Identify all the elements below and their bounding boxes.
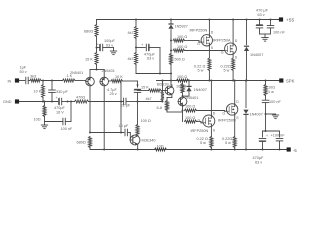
svg-text:330 pF: 330 pF: [56, 90, 69, 94]
junction D4 rail: [245, 149, 247, 151]
resistor R6 680R: [95, 25, 98, 37]
resistor R18 100R gate M2: [173, 49, 185, 52]
svg-text:G: G: [198, 118, 201, 122]
svg-text:100 Ω: 100 Ω: [185, 116, 195, 120]
capacitor C12 100nF zobel: [262, 100, 269, 102]
capacitor C14 100nF -rail: [276, 139, 283, 141]
svg-text:22 pF: 22 pF: [121, 103, 131, 107]
svg-text:IN: IN: [8, 80, 12, 84]
wire D4 bottom: [245, 115, 247, 150]
junction 4u7 node: [137, 101, 139, 103]
svg-text:50 v: 50 v: [20, 70, 27, 74]
resistor R28 10R zobel: [264, 85, 267, 96]
junction 4k7 midnode: [135, 47, 137, 49]
resistor R9 680R feedback: [89, 137, 92, 148]
resistor R3 10K input shunt: [42, 85, 45, 98]
wire botcap2 bottom: [279, 141, 281, 150]
svg-text:100 nF: 100 nF: [273, 31, 286, 35]
wire gnd row mid: [62, 101, 75, 103]
svg-text:S: S: [235, 55, 238, 59]
junction tail: [96, 69, 98, 71]
wire R1 to node A: [41, 80, 63, 82]
svg-text:G: G: [221, 51, 224, 55]
junction NFB node: [89, 132, 91, 134]
junction 470uF return: [159, 73, 161, 75]
wire to M1 gate: [185, 41, 202, 43]
resistor R25 100R gate M3: [185, 120, 197, 123]
transistor Q4 BD139: [165, 86, 174, 95]
wire M4 source: [234, 115, 236, 136]
svg-text:+: +: [141, 43, 143, 47]
junction rail 4k7a: [135, 19, 137, 21]
wire 680R to node: [96, 37, 98, 53]
junction tail filter node: [96, 47, 98, 49]
svg-text:-55: -55: [293, 148, 297, 153]
wire 500R to output rail: [170, 65, 172, 81]
junction Q2 col rail: [103, 149, 105, 151]
wire gnd lift bottom: [44, 117, 46, 126]
svg-text:10 K: 10 K: [115, 75, 123, 79]
junction M2 drain rail: [232, 19, 234, 21]
junction botcap2 rail: [279, 149, 281, 151]
wire feedback row: [89, 101, 124, 103]
svg-text:S: S: [236, 116, 239, 120]
svg-text:S: S: [211, 46, 214, 50]
wire D2 bottom: [246, 51, 248, 81]
wire 22pF to 4u7 node: [126, 101, 138, 103]
wire Q5 emitter down: [182, 105, 184, 121]
svg-text:1 w: 1 w: [268, 90, 274, 94]
svg-text:D: D: [235, 39, 238, 43]
svg-text:+: +: [97, 43, 99, 47]
junction M3 rail: [210, 149, 212, 151]
wire 4k7b bottom: [135, 65, 137, 74]
wire topcap2 bottom: [270, 28, 272, 34]
wire 15K to BD139 base: [138, 90, 166, 92]
junction M3 out: [210, 80, 212, 82]
resistor R7 15K tail: [95, 53, 98, 65]
svg-text:100 Ω: 100 Ω: [176, 85, 186, 89]
junction node B: [51, 80, 53, 82]
svg-text:3k3: 3k3: [30, 75, 36, 79]
wire R3 to gnd row: [42, 81, 44, 102]
wire botcap1 stub: [262, 131, 264, 137]
wire 470uF return: [136, 48, 160, 74]
wire Q1 collector: [89, 86, 91, 133]
wire return to gate line: [160, 73, 171, 75]
wire rail to R23: [182, 81, 184, 84]
junction gate row2: [170, 50, 172, 52]
junction zobel: [265, 80, 267, 82]
svg-text:1N4007: 1N4007: [250, 113, 263, 117]
resistor R23 100R driver: [181, 84, 184, 94]
wire Q2 base: [109, 80, 112, 82]
wire fb vertical top: [121, 81, 138, 133]
svg-text:100 Ω: 100 Ω: [185, 105, 195, 109]
svg-text:100 Ω: 100 Ω: [177, 45, 187, 49]
wire 100nF branch: [65, 102, 71, 122]
node +55 terminal: [279, 17, 283, 21]
resistor R1 3k3: [30, 79, 41, 82]
junction botcap1 rail: [262, 149, 264, 151]
node GND terminal: [15, 99, 19, 103]
wire M3 drain up: [210, 81, 212, 116]
capacitor C7 4.7uF marker: [136, 85, 138, 88]
wire M2 drain: [232, 20, 234, 43]
junction rail R23: [182, 80, 184, 82]
resistor R15 4k7 upper: [135, 27, 138, 39]
wire tail: [90, 65, 104, 78]
wire Q3 emitter: [137, 144, 139, 149]
wire topcaps join: [260, 34, 271, 38]
svg-text:680Ω: 680Ω: [77, 141, 86, 145]
capacitor C4 22pF: [124, 98, 126, 105]
wire VAS collector up: [137, 102, 139, 125]
svg-text:100 Ω: 100 Ω: [177, 35, 187, 39]
wire +55 top rail: [97, 19, 281, 21]
svg-text:15 K: 15 K: [85, 58, 93, 62]
transistor M4 IRFP250N: [226, 104, 237, 115]
junction botcaps: [265, 130, 267, 132]
svg-text:10Ω: 10Ω: [157, 145, 164, 149]
junction 500R rail: [170, 80, 172, 82]
wire output to 4k7: [162, 81, 164, 92]
junction Q5 collector node: [182, 95, 184, 97]
resistor R11 10R rail: [155, 148, 167, 151]
svg-text:S: S: [213, 128, 216, 132]
svg-text:2N5401: 2N5401: [185, 96, 198, 100]
ground output: [272, 115, 278, 119]
diode D3 1N4007 clamp: [186, 86, 191, 91]
capacitor C11 100nF +rail: [267, 26, 274, 28]
resistor R20 0.22R M1: [208, 58, 211, 71]
junction feedback-gnd node: [67, 101, 69, 103]
junction rail zener: [170, 19, 172, 21]
wire M3 to rail: [210, 148, 212, 150]
junction M4 rail: [234, 149, 236, 151]
capacitor C2 330pF: [49, 90, 56, 92]
svg-text:5 w: 5 w: [224, 68, 230, 72]
svg-text:G: G: [197, 42, 200, 46]
wire D3 to Q5 collector: [183, 91, 190, 96]
resistor R13 15K bias feed: [149, 89, 162, 92]
junction gnd-10K: [42, 101, 44, 103]
svg-text:MJE340: MJE340: [142, 139, 156, 143]
svg-text:15 K: 15 K: [141, 86, 149, 90]
svg-text:16 V: 16 V: [56, 110, 64, 114]
wire C1 to R1: [28, 80, 30, 82]
wire R2 to Q1 base: [75, 80, 86, 82]
wire Q2 collector: [103, 86, 105, 150]
svg-text:D: D: [211, 31, 214, 35]
svg-text:SPK: SPK: [286, 79, 295, 84]
resistor R27 0.22R M4: [233, 137, 236, 148]
svg-text:IRFP250N: IRFP250N: [218, 119, 236, 123]
svg-text:4k7: 4k7: [128, 31, 134, 35]
wire M1 to output: [208, 71, 210, 81]
resistor R4 470R feedback: [75, 100, 89, 103]
transistor M3 IRFP250N: [203, 115, 215, 127]
wire M2 to output: [232, 71, 234, 81]
wire 4u7 to fb node: [137, 93, 139, 102]
svg-text:470µF: 470µF: [253, 156, 265, 160]
capacitor C13 470uF -rail: [259, 139, 266, 142]
wire 4u7 vertical: [137, 81, 139, 87]
svg-text:GND: GND: [3, 100, 12, 104]
wire D2 top: [246, 20, 248, 45]
wire M1 source: [208, 46, 210, 58]
svg-text:470Ω: 470Ω: [76, 96, 85, 100]
svg-text:100 Ω: 100 Ω: [177, 75, 187, 79]
svg-text:4k7: 4k7: [146, 97, 152, 101]
junction lower gate row1: [182, 110, 184, 112]
wire M3 source: [210, 127, 212, 137]
wire output rail to SPK: [157, 80, 280, 82]
diode D1 zener 1N5927: [168, 23, 173, 28]
svg-text:1N5927: 1N5927: [175, 25, 188, 29]
junction output-4k7: [162, 80, 164, 82]
wire D3 stub: [188, 81, 190, 86]
wire 100nF to ground lift: [45, 121, 63, 123]
svg-text:+55: +55: [286, 18, 294, 24]
svg-text:D: D: [213, 112, 216, 116]
diode D2 1N4007 upper: [244, 46, 249, 51]
svg-text:+: +: [266, 134, 268, 138]
resistor R19 500R: [170, 54, 173, 65]
transistor M2 IRFP250N: [225, 43, 237, 55]
svg-text:IRFP250A: IRFP250A: [213, 39, 231, 43]
resistor R26 0.22R M3: [210, 137, 213, 148]
svg-text:D: D: [236, 100, 239, 104]
svg-text:10 µF: 10 µF: [119, 124, 129, 128]
wire gnd lift top: [44, 102, 46, 106]
wire Q4 collector: [170, 81, 173, 88]
wire 100uF to ground: [103, 48, 114, 52]
capacitor C5 100nF: [63, 118, 65, 125]
svg-text:5 w: 5 w: [225, 141, 231, 145]
svg-text:BD139: BD139: [157, 83, 169, 87]
junction gate row1: [170, 40, 172, 42]
capacitor C9 470uF bias: [146, 44, 149, 51]
wire M1 drain: [208, 20, 210, 35]
junction fb row with Q2 branch: [120, 101, 122, 103]
resistor R14 68R: [166, 101, 169, 111]
wire to M3 gate: [197, 122, 203, 123]
wire Q4 emitter: [167, 95, 172, 101]
svg-text:25 v: 25 v: [110, 92, 117, 96]
wire D4 top: [245, 81, 247, 108]
wire 470uF+ stub: [259, 20, 261, 25]
svg-text:1N4007: 1N4007: [194, 88, 207, 92]
svg-text:10Ω: 10Ω: [34, 118, 41, 122]
svg-text:+100 nF: +100 nF: [271, 134, 286, 138]
capacitor C8 10uF: [125, 129, 127, 136]
transistor M1 IRFP250N: [201, 35, 212, 46]
junction topcap2: [270, 19, 272, 21]
resistor R2 1K series: [63, 79, 76, 82]
resistor R5 10R ground lift: [43, 106, 46, 117]
wire M4 to rail: [234, 148, 236, 150]
junction Q3 emitter rail: [137, 149, 139, 151]
svg-text:680Ω: 680Ω: [84, 30, 93, 34]
junction M4 out: [234, 80, 236, 82]
resistor R22 100R output: [177, 79, 189, 82]
svg-text:500 Ω: 500 Ω: [175, 58, 185, 62]
transistor Q3 MJE340: [130, 135, 140, 145]
capacitor C3 470uF feedback: [58, 98, 62, 105]
svg-text:63 v: 63 v: [258, 13, 265, 17]
ground 100uF: [110, 51, 116, 55]
wire input: [19, 80, 25, 82]
svg-text:IRFP250N: IRFP250N: [191, 129, 209, 133]
junction bias return: [170, 73, 172, 75]
svg-text:4k7: 4k7: [128, 57, 134, 61]
junction D4 out: [245, 80, 247, 82]
svg-text:6-8: 6-8: [157, 106, 163, 110]
resistor R8 10K feedback: [111, 80, 123, 83]
transistor Q1 2N5401: [86, 77, 95, 86]
svg-text:63 v: 63 v: [147, 57, 154, 61]
junction gnd-330pF: [51, 101, 53, 103]
junction zobel gnd branch: [265, 113, 267, 115]
svg-text:+: +: [56, 96, 59, 100]
wire to M4 gate: [197, 110, 227, 113]
wire NFB row: [90, 132, 124, 134]
wire 680R to rail: [89, 148, 91, 150]
capacitor C10 470uF +rail: [256, 24, 263, 28]
svg-text:63 v: 63 v: [255, 161, 262, 165]
wire 4k7 to fb row: [138, 101, 163, 102]
resistor R16 4k7 lower: [135, 53, 138, 65]
svg-text:2N5401: 2N5401: [70, 71, 83, 75]
svg-text:100 nF: 100 nF: [269, 100, 282, 104]
wire zener stub: [170, 20, 172, 24]
wire 68R to lower gate row: [167, 111, 182, 113]
diode D4 1N4007 lower: [243, 110, 248, 115]
wire zobel down: [265, 103, 267, 131]
junction D2 rail: [246, 19, 248, 21]
ground +rail caps: [262, 38, 268, 42]
junction D2 out: [246, 80, 248, 82]
junction M1 out: [208, 80, 210, 82]
capacitor C6 100uF decoupling: [99, 44, 103, 51]
junction NFB-dropper: [120, 132, 122, 134]
node -55 terminal: [287, 147, 291, 151]
resistor R21 0.22R M2: [232, 58, 235, 71]
wire rail to 4k7a: [135, 20, 137, 27]
wire 330pF top: [51, 81, 53, 90]
wire botcaps row: [263, 130, 280, 132]
svg-text:10 K: 10 K: [34, 90, 42, 94]
svg-text:100 nF: 100 nF: [61, 127, 74, 131]
junction M1 drain rail: [208, 19, 210, 21]
wire top rail to 680R: [96, 20, 98, 25]
wire zobel gnd branch: [266, 114, 276, 115]
wire midnode to 470uF: [136, 47, 145, 49]
wire 100nF+ stub: [270, 20, 272, 26]
wire 4k7a to node: [135, 39, 137, 53]
junction node A: [42, 80, 44, 82]
wire Q3 collector: [137, 135, 139, 137]
svg-text:IRFP250N: IRFP250N: [190, 28, 208, 32]
wire to 100uF: [97, 47, 100, 49]
svg-text:2N5401: 2N5401: [102, 69, 115, 73]
svg-text:5 w: 5 w: [198, 68, 204, 72]
node SPK terminal: [279, 78, 283, 82]
wire -55 bottom rail: [91, 149, 288, 151]
transistor Q2 2N5401: [100, 77, 109, 86]
wire to M2 gate: [185, 50, 225, 52]
junction 100nF branch top: [70, 101, 72, 103]
capacitor C1 1uF input coupling: [26, 77, 28, 84]
wire M4 drain up: [234, 81, 236, 104]
wire 10uF to MJE base: [127, 133, 130, 141]
wire gate line: [170, 30, 172, 54]
wire 330pF bottom: [51, 93, 53, 102]
resistor R24 100R gate M4: [185, 109, 197, 112]
wire gnd row left: [19, 101, 57, 103]
wire zobel mid: [265, 96, 267, 101]
junction M2 out: [232, 80, 234, 82]
junction 4k7 fb node: [162, 101, 164, 103]
wire R23 to Q5: [182, 93, 184, 97]
svg-text:G: G: [222, 111, 225, 115]
node IN terminal: [15, 78, 19, 82]
wire zobel top: [265, 81, 267, 85]
svg-text:63 v: 63 v: [106, 43, 113, 47]
svg-text:100 Ω: 100 Ω: [141, 119, 151, 123]
wire M2 source: [232, 55, 234, 58]
svg-text:5 w: 5 w: [200, 141, 206, 145]
junction D3 rail: [188, 80, 190, 82]
ground chassis input: [41, 125, 47, 129]
resistor R12 4k7 feedback: [161, 92, 164, 101]
wire topcap1 bottom: [259, 28, 261, 34]
svg-text:1N4007: 1N4007: [250, 53, 263, 57]
resistor R10 100R VAS: [136, 125, 139, 136]
junction gnd lift: [44, 101, 46, 103]
wire botcap1 bottom: [262, 141, 264, 150]
resistor R17 100R gate M1: [173, 39, 185, 42]
svg-text:1µF: 1µF: [20, 66, 27, 70]
junction topcap1: [259, 19, 261, 21]
capacitor C7 4.7uF: [134, 89, 141, 93]
wire botcap2 stub: [279, 131, 281, 137]
transistor Q5 2N5401 driver: [178, 97, 187, 106]
